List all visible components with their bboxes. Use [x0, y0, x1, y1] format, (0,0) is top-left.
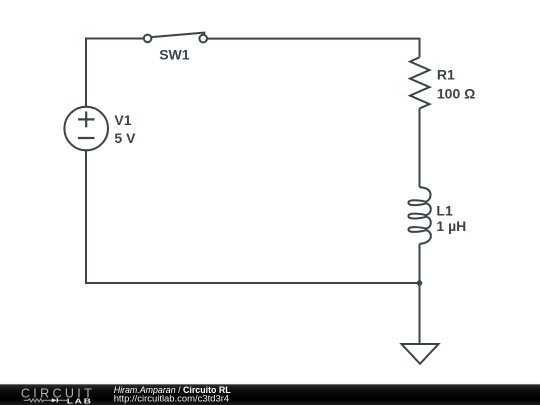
wire: left rail from V1 bottom to bottom-left corner	[85, 150, 87, 284]
svg-text:L1: L1	[436, 203, 453, 219]
svg-text:1 µH: 1 µH	[436, 218, 466, 234]
logo diode	[52, 398, 57, 402]
wire: right rail between R1 and L1	[419, 108, 421, 187]
resistor R1	[410, 57, 430, 108]
switch SW1	[144, 33, 207, 43]
footer bar	[0, 384, 540, 405]
svg-text:SW1: SW1	[159, 47, 190, 63]
inductor L1	[408, 187, 430, 244]
svg-text:V1: V1	[114, 112, 131, 128]
wire: right rail from L1 down to bottom junction	[419, 244, 421, 283]
wire: top from switch right terminal to top-right corner, down to R1	[207, 39, 420, 58]
svg-text:100 Ω: 100 Ω	[437, 85, 475, 101]
wire: bottom horizontal	[85, 282, 420, 284]
logo resistor squiggle	[24, 399, 52, 402]
svg-text:http://circuitlab.com/c3td3r4: http://circuitlab.com/c3td3r4	[114, 394, 229, 405]
wire: top-left horizontal from left rail to switch left terminal	[86, 38, 144, 40]
voltage source V1	[64, 107, 108, 151]
node: junction at bottom-right	[417, 280, 423, 286]
ground	[402, 344, 439, 364]
svg-text:LAB: LAB	[67, 397, 93, 405]
svg-text:R1: R1	[437, 67, 455, 83]
wire: junction down to ground	[419, 283, 421, 344]
wire: left rail from top corner down to V1 top	[85, 38, 87, 107]
svg-text:5 V: 5 V	[114, 130, 136, 146]
